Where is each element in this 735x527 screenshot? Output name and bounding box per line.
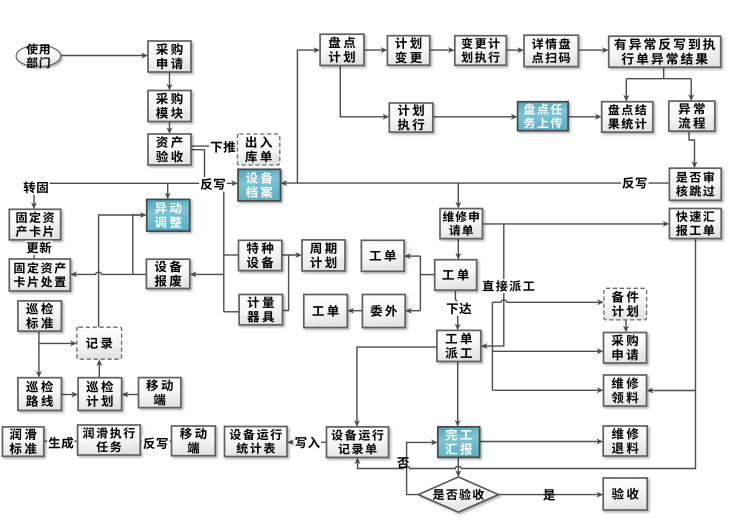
wire arrow into 异动调整 [132, 212, 147, 218]
box 润滑标准 [3, 427, 44, 456]
box 设备报废 [146, 259, 189, 288]
label 反写 [142, 436, 170, 451]
box 盘点任务上传 [518, 102, 569, 131]
wire 移动端 反写 to 润滑执行任务 [140, 438, 171, 444]
wire 委外 to 工单 [347, 308, 362, 314]
label 写入 [294, 435, 322, 450]
wire branch riser [132, 215, 134, 274]
wire 盘点计划 to 计划执行 [340, 65, 389, 119]
wire 工单 left tee [420, 274, 434, 276]
box 验收 [603, 478, 647, 510]
wire 转固 line to 设备档案 [34, 180, 238, 186]
box 巡检标准 [18, 301, 62, 331]
wire branch down 设备 net [223, 183, 225, 311]
box 异动调整 [147, 199, 190, 231]
box 是否审核跳过 [669, 168, 721, 200]
box 盘点计划 [320, 34, 364, 65]
wire 工单派工 to 完工汇报 [455, 361, 461, 426]
wire 是否审核跳过 反写 to 设备档案 [281, 180, 670, 186]
wire 完工汇报 to diamond [455, 457, 461, 477]
box 润滑执行任务 [78, 425, 141, 455]
wire diamond 是 to 验收 [498, 492, 603, 498]
box 设备运行统计表 [225, 427, 288, 457]
wire 计量器具 riser join [283, 255, 289, 311]
wire net to 计量器具 [224, 311, 239, 313]
wire 计划执行 to 盘点任务上传 [433, 114, 518, 120]
wire 资产验收 to 出入库单 下推 [191, 143, 238, 149]
box 异常流程 [669, 101, 715, 131]
label 否 [397, 457, 409, 468]
wire 快速汇报工单 down line [355, 239, 696, 469]
box 采购申请 [604, 333, 647, 364]
box 设备档案 [238, 169, 281, 201]
box 采购申请 [148, 41, 191, 72]
box 维修退料 [603, 426, 647, 456]
wire riser to 异动调整 [99, 215, 141, 327]
box 完工汇报 [438, 427, 480, 458]
label 是 [543, 489, 555, 500]
label 下达 [445, 301, 473, 316]
box 巡检路线 [18, 378, 62, 411]
box 固定资产卡片处置 [9, 259, 70, 291]
wire branch down to 维修申请单 [455, 183, 461, 209]
wire 计划变更 to 变更计划执行 [430, 47, 455, 53]
wire 盘点任务上传 to 盘点结果统计 [568, 114, 602, 120]
box 移动端 [172, 426, 216, 456]
label 反写 [199, 177, 227, 192]
wire 维修申请单 to 工单 [455, 239, 461, 260]
wire 移动端 to 巡检计划 [122, 392, 139, 398]
wire 详情盘点扫码 to 有异常 [578, 47, 608, 53]
box 计划执行 [389, 103, 433, 132]
box 工单 [435, 260, 477, 291]
wire 使用部门 to 采购申请 [62, 53, 149, 59]
label 下推 [209, 140, 237, 155]
wire tee to 工单 small [404, 253, 420, 259]
wire 变更计划执行 to 详情盘点扫码 [506, 47, 524, 53]
label 转固 [22, 180, 50, 195]
box 委外 [362, 295, 405, 328]
box 工单 [304, 295, 348, 328]
box 记录 [77, 327, 122, 359]
wire 工单 下达 工单派工 [455, 290, 461, 330]
box 变更计划执行 [455, 36, 507, 65]
wire fan to 备件计划 [492, 299, 604, 305]
wire 巡检标准 to 巡检路线 [36, 331, 42, 378]
wire net to 特种设备 [224, 254, 239, 256]
wire 设备报废 to 固定资产卡片处置 [70, 271, 146, 277]
box 固定资产卡片 [9, 209, 60, 240]
box 特种设备 [239, 240, 282, 270]
wire 有异常 splitter stem [663, 67, 665, 79]
wire 维修申请单 to 快速汇报工单 [482, 221, 669, 227]
label 更新 [25, 241, 53, 256]
box 详情盘点扫码 [524, 35, 578, 66]
wire 直接派工 drop to 工单派工 [481, 224, 504, 349]
label 生成 [47, 436, 74, 451]
box 工单 [361, 240, 404, 271]
wire branch to 维修领料 [647, 388, 696, 394]
box 快速汇报工单 [669, 209, 721, 239]
wire 资产验收 反写 branch [191, 150, 205, 184]
wire fan riser [491, 302, 493, 390]
box 周期计划 [302, 240, 345, 271]
wire 记录单 写入 统计表 [287, 439, 327, 445]
wire 完工汇报 to 维修退料 [480, 439, 604, 445]
wire 转固 drop to 固定资产卡片 [31, 183, 37, 209]
wire drop to 异动调整 [165, 183, 171, 199]
wire 巡检标准 to 记录 [39, 340, 77, 346]
wire tee to 委外 [405, 308, 420, 314]
wire splitter bar [626, 78, 691, 80]
wire 工单派工 to 设备运行记录单 [354, 347, 437, 427]
box 盘点结果统计 [602, 102, 653, 132]
wire diamond 否 loop [407, 439, 438, 494]
label 反写 [621, 176, 649, 191]
wire tee riser [419, 256, 421, 311]
wire 采购模块 to 资产验收 [167, 122, 173, 135]
box 出入库单 [237, 134, 279, 165]
node 使用部门 [16, 43, 61, 68]
wire fan to 采购申请 [492, 348, 603, 354]
box 计量器具 [239, 295, 282, 325]
wire 备件计划 to 采购申请 [623, 320, 629, 333]
wire net to 设备报废 [190, 271, 224, 277]
wire 采购申请 to 采购模块 [167, 72, 173, 91]
wire 盘点计划 to 计划变更 [364, 47, 388, 53]
wire 特种设备 to 周期计划 [282, 252, 302, 258]
box 巡检计划 [78, 378, 122, 411]
box 有异常反写到执行单异常结果 [609, 36, 721, 67]
wire split to 异常流程 [688, 79, 694, 101]
wire 异常流程 to 是否审核跳过 [689, 131, 698, 168]
box 设备运行记录单 [327, 427, 389, 458]
wire 巡检计划 to 记录 [96, 359, 102, 378]
wire 巡检路线 to 巡检计划 [61, 392, 78, 398]
box 维修领料 [604, 375, 647, 406]
box 移动端 [139, 378, 181, 408]
box 备件计划 [604, 288, 647, 320]
box 维修申请单 [440, 209, 482, 239]
box 资产验收 [148, 134, 191, 165]
box 采购模块 [148, 91, 191, 122]
wire split to 盘点结果统计 [623, 79, 629, 102]
wire fan to 维修领料 [492, 387, 603, 393]
box 计划变更 [387, 36, 429, 65]
wire 更新 arrow [31, 240, 37, 259]
label 直接派工 [481, 279, 536, 293]
decision 是否验收 [418, 477, 498, 512]
wire 润滑标准 生成 to 润滑执行任务 [44, 438, 78, 444]
wire branch up to 盘点计划 [297, 47, 320, 183]
box 工单派工 [437, 330, 481, 361]
